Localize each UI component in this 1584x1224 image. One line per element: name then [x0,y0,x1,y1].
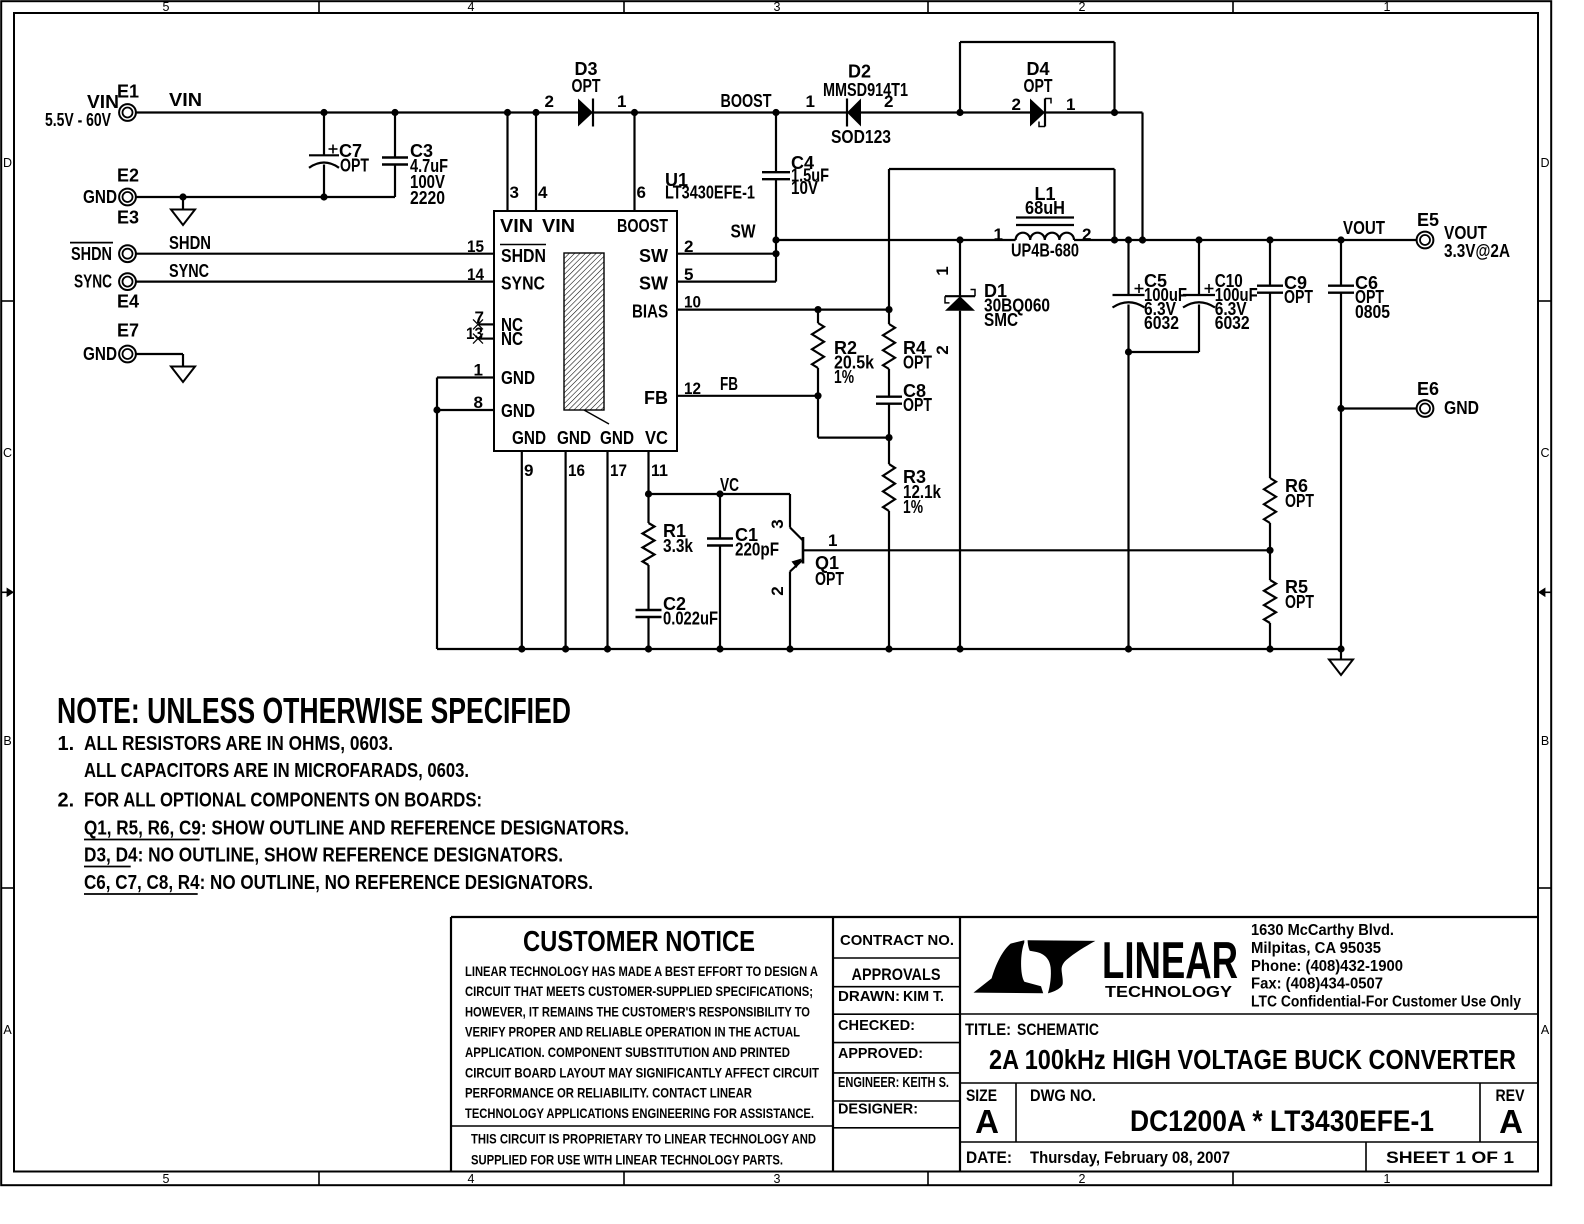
wire D4 cathode to VOUT [1045,109,1143,240]
svg-text:VIN: VIN [500,216,533,236]
svg-text:NC: NC [501,329,523,349]
wire net SW [677,236,1016,281]
svg-text:E1: E1 [117,82,139,102]
svg-text:2A 100kHz HIGH VOLTAGE BUCK CO: 2A 100kHz HIGH VOLTAGE BUCK CONVERTER [989,1044,1516,1075]
terminal E1 VIN [45,82,202,131]
svg-text:OPT: OPT [903,395,932,415]
svg-text:D2: D2 [848,62,871,82]
svg-text:4: 4 [538,183,548,202]
svg-text:DRAWN:: DRAWN: [838,988,900,1005]
svg-text:BOOST: BOOST [617,216,668,236]
ground symbol (main rail) [1329,660,1353,676]
diode D3 [545,59,627,127]
svg-text:1: 1 [828,531,837,550]
svg-text:A: A [975,1103,999,1140]
svg-text:1: 1 [1384,0,1391,14]
svg-text:SHDN: SHDN [71,244,112,264]
svg-text:2: 2 [1082,225,1091,244]
svg-text:Thursday, February 08, 2007: Thursday, February 08, 2007 [1030,1148,1230,1167]
svg-text:1%: 1% [903,497,923,517]
capacitor C6 OPT 0805 [1328,240,1390,649]
svg-text:BIAS: BIAS [632,302,668,322]
svg-text:4: 4 [468,0,475,14]
Linear Technology logo [974,932,1239,1001]
svg-text:6: 6 [637,183,646,202]
svg-text:CUSTOMER NOTICE: CUSTOMER NOTICE [523,926,755,958]
svg-text:3: 3 [774,0,781,14]
diode D2 MMSD914T1 [806,62,908,148]
svg-text:LTC Confidential-For Customer: LTC Confidential-For Customer Use Only [1251,993,1521,1010]
wire BIAS column to VOUT [889,169,1115,310]
svg-text:5: 5 [684,265,693,284]
svg-text:14: 14 [467,265,484,284]
svg-text:17: 17 [610,461,627,480]
address text [1251,922,1521,1010]
svg-text:CONTRACT NO.: CONTRACT NO. [840,932,954,949]
svg-text:SHDN: SHDN [501,246,546,266]
svg-text:LT3430EFE-1: LT3430EFE-1 [665,183,755,203]
capacitor C8 OPT [876,381,932,438]
svg-text:SMC: SMC [984,310,1018,330]
svg-text:2.: 2. [58,790,75,812]
svg-text:VIN: VIN [169,90,202,110]
wire net FB [677,392,822,399]
capacitor C1 220pF [707,494,779,649]
svg-text:GND: GND [600,428,634,448]
capacitor C4 [762,113,829,241]
svg-text:1: 1 [806,92,815,111]
svg-text:9: 9 [524,461,533,480]
svg-text:0805: 0805 [1355,302,1390,322]
svg-text:CHECKED:: CHECKED: [838,1017,915,1034]
wire R2 bottom leg [818,396,893,441]
svg-text:Fax: (408)434-0507: Fax: (408)434-0507 [1251,976,1383,993]
svg-text:GND: GND [83,344,117,364]
svg-text:OPT: OPT [1285,592,1314,612]
svg-text:2: 2 [684,237,693,256]
svg-text:OPT: OPT [815,569,844,589]
svg-text:VOUT: VOUT [1343,218,1385,238]
svg-text:E5: E5 [1417,210,1439,230]
resistor R5 OPT [1264,550,1314,649]
svg-text:Phone: (408)432-1900: Phone: (408)432-1900 [1251,958,1403,975]
svg-text:1.: 1. [58,733,75,755]
U1 NC stub pin 13 [473,334,494,344]
svg-text:10: 10 [684,293,701,312]
terminal E6 GND [1417,379,1479,418]
svg-text:CIRCUIT BOARD LAYOUT MAY SIGNI: CIRCUIT BOARD LAYOUT MAY SIGNIFICANTLY A… [465,1064,819,1080]
svg-text:OPT: OPT [572,76,601,96]
svg-text:TITLE:: TITLE: [965,1020,1011,1039]
svg-text:2: 2 [1079,0,1086,14]
capacitor C9 OPT [1257,240,1313,478]
wire C5/C10 bottom tie [1125,348,1199,355]
svg-text:2220: 2220 [410,188,445,208]
svg-text:SW: SW [731,222,756,242]
svg-text:OPT: OPT [1024,76,1053,96]
capacitor C2 0.022uF [636,594,719,649]
svg-text:1: 1 [617,92,626,111]
svg-text:4: 4 [468,1172,475,1186]
svg-text:6032: 6032 [1215,313,1250,333]
svg-text:FOR ALL OPTIONAL COMPONENTS ON: FOR ALL OPTIONAL COMPONENTS ON BOARDS: [84,790,482,812]
svg-text:GND: GND [501,368,535,388]
svg-text:10V: 10V [791,178,818,198]
svg-text:GND: GND [512,428,546,448]
svg-text:11: 11 [651,461,668,480]
date row [966,1148,1514,1167]
wire net VIN [136,109,578,211]
svg-text:2: 2 [884,92,893,111]
svg-text:DESIGNER:: DESIGNER: [838,1101,918,1118]
svg-text:VC: VC [645,428,668,448]
svg-text:3.3k: 3.3k [663,536,694,556]
size / dwg / rev row [966,1086,1525,1140]
svg-text:SCHEMATIC: SCHEMATIC [1017,1020,1099,1039]
svg-text:ALL CAPACITORS ARE IN MICROFAR: ALL CAPACITORS ARE IN MICROFARADS, 0603. [84,760,469,782]
resistor R6 OPT [1264,476,1314,550]
terminal E7 GND [83,321,139,365]
resistor R1 3.3k [643,494,694,610]
resistor R4 OPT [883,310,932,397]
svg-text:5: 5 [163,1172,170,1186]
svg-text:SYNC: SYNC [74,272,112,292]
ground symbol (E2) [171,210,195,226]
svg-text:2: 2 [1079,1172,1086,1186]
centerline arrow right [1538,588,1551,598]
svg-text:6032: 6032 [1144,313,1179,333]
wire net BIAS [677,306,893,313]
svg-text:8: 8 [474,393,483,412]
svg-text:3: 3 [768,519,787,528]
svg-text:NOTE: UNLESS OTHERWISE SPECIFI: NOTE: UNLESS OTHERWISE SPECIFIED [57,690,571,731]
svg-text:2: 2 [1012,95,1021,114]
svg-text:OPT: OPT [903,353,932,373]
title block grid [451,917,1538,1172]
net label VC [720,475,739,495]
svg-text:DWG NO.: DWG NO. [1030,1086,1096,1105]
svg-text:220pF: 220pF [735,540,779,560]
svg-text:PERFORMANCE OR RELIABILITY. C: PERFORMANCE OR RELIABILITY. CONTACT LINE… [465,1085,752,1101]
svg-text:1630 McCarthy Blvd.: 1630 McCarthy Blvd. [1251,922,1394,939]
inductor L1 68uH [994,184,1092,261]
svg-text:OPT: OPT [1284,287,1313,307]
svg-text:SYNC: SYNC [501,274,545,294]
svg-text:GND: GND [83,187,117,207]
svg-text:E7: E7 [117,321,139,341]
wire E7 to ground [136,354,183,367]
op-amp U1 LT3430EFE-1 body [494,170,755,451]
wire net SYNC [136,281,494,283]
capacitor C3 [382,113,448,209]
svg-text:SUPPLIED FOR USE WITH LINEAR T: SUPPLIED FOR USE WITH LINEAR TECHNOLOGY … [471,1151,783,1167]
svg-text:1: 1 [474,361,483,380]
terminal E4 SYNC [74,261,209,312]
centerline arrow left [1,588,14,598]
svg-text:1: 1 [994,225,1003,244]
svg-text:E3: E3 [117,208,139,228]
svg-text:APPROVED:: APPROVED: [838,1045,923,1062]
svg-text:SYNC: SYNC [169,261,209,281]
net label SW [731,222,756,242]
capacitor C7 [309,113,369,198]
svg-text:SOD123: SOD123 [831,127,891,147]
svg-text:VC: VC [720,475,739,495]
svg-text:0.022uF: 0.022uF [663,609,718,629]
U1 NC stub pin 7 [473,319,494,329]
wire to E6 [1337,405,1416,412]
svg-text:E2: E2 [117,166,139,186]
svg-text:16: 16 [568,461,585,480]
svg-text:C6, C7, C8, R4: NO OUTLINE, NO: C6, C7, C8, R4: NO OUTLINE, NO REFERENCE… [84,872,593,894]
terminal E5 VOUT [1343,210,1510,261]
svg-text:D3, D4: NO OUTLINE, SHOW REFER: D3, D4: NO OUTLINE, SHOW REFERENCE DESIG… [84,845,563,867]
svg-text:FB: FB [644,388,668,408]
svg-text:2: 2 [545,92,554,111]
svg-text:A: A [1499,1103,1523,1140]
svg-text:GND: GND [1444,398,1479,418]
svg-text:FB: FB [720,374,738,394]
svg-text:SW: SW [639,274,668,294]
svg-text:BOOST: BOOST [721,91,772,111]
resistor R3 12.1k [883,438,942,649]
svg-text:12: 12 [684,379,701,398]
svg-text:LINEAR TECHNOLOGY HAS MADE A B: LINEAR TECHNOLOGY HAS MADE A BEST EFFORT… [465,963,818,979]
customer notice text [465,926,819,1167]
svg-text:C: C [3,446,12,460]
notes text [57,690,629,894]
net label FB [720,374,738,394]
svg-text:2: 2 [933,345,952,354]
svg-text:HOWEVER, IT REMAINS THE CUSTOM: HOWEVER, IT REMAINS THE CUSTOMER'S RESPO… [465,1003,810,1019]
svg-text:5.5V - 60V: 5.5V - 60V [45,110,111,130]
svg-text:TECHNOLOGY APPLICATIONS ENGINE: TECHNOLOGY APPLICATIONS ENGINEERING FOR … [465,1105,814,1121]
resistor R2 20.5k [812,310,875,396]
svg-text:GND: GND [557,428,591,448]
svg-text:3: 3 [774,1172,781,1186]
svg-text:SHEET 1 OF 1: SHEET 1 OF 1 [1386,1148,1514,1167]
svg-text:A: A [1541,1023,1550,1037]
capacitor C5 100uF [1113,240,1188,649]
svg-text:1: 1 [1384,1172,1391,1186]
svg-text:3: 3 [510,183,519,202]
terminal E3 SHDN [70,208,211,265]
wire D2 anode to D4 anode [861,42,1115,116]
svg-text:1%: 1% [834,367,854,387]
svg-text:DATE:: DATE: [966,1148,1012,1167]
svg-text:APPLICATION. COMPONENT SUBSTI: APPLICATION. COMPONENT SUBSTITUTION AND … [465,1044,790,1060]
svg-text:DC1200A * LT3430EFE-1: DC1200A * LT3430EFE-1 [1130,1105,1434,1138]
U1 pin numbers [466,183,701,480]
svg-text:1: 1 [933,266,952,275]
svg-text:VIN: VIN [87,92,119,112]
approvals column text [838,932,954,1118]
svg-text:ENGINEER: KEITH S.: ENGINEER: KEITH S. [838,1074,949,1091]
svg-text:68uH: 68uH [1025,198,1065,218]
svg-text:Q1, R5, R6, C9: SHOW OUTLINE A: Q1, R5, R6, C9: SHOW OUTLINE AND REFEREN… [84,818,629,840]
svg-text:VIN: VIN [542,216,575,236]
svg-text:KIM T.: KIM T. [903,988,944,1005]
svg-text:D: D [3,156,12,170]
wire ground rail [433,378,1344,660]
wire Q1 base line [803,547,1274,554]
svg-text:A: A [3,1023,12,1037]
svg-text:TECHNOLOGY: TECHNOLOGY [1105,984,1233,1001]
title text [965,1020,1516,1075]
svg-text:1: 1 [1066,95,1075,114]
svg-text:SW: SW [639,246,668,266]
capacitor C10 100uF [1183,240,1258,352]
svg-text:E6: E6 [1417,379,1439,399]
svg-text:SHDN: SHDN [169,233,211,253]
svg-text:ALL RESISTORS ARE IN OHMS, 060: ALL RESISTORS ARE IN OHMS, 0603. [84,733,393,755]
svg-text:2: 2 [768,586,787,595]
diode D1 30BQ060 [933,240,1050,649]
svg-text:C: C [1540,446,1549,460]
svg-text:APPROVALS: APPROVALS [852,965,941,984]
terminal E2 GND [83,166,139,208]
svg-text:D: D [1540,156,1549,170]
wire net BOOST [593,109,847,211]
wire net VC [645,451,790,498]
svg-text:VOUT: VOUT [1444,223,1487,243]
svg-text:CIRCUIT THAT MEETS CUSTOMER-SU: CIRCUIT THAT MEETS CUSTOMER-SUPPLIED SPE… [465,983,813,999]
transistor Q1 (PNP) [768,494,844,649]
svg-text:Milpitas, CA 95035: Milpitas, CA 95035 [1251,940,1381,957]
svg-text:LINEAR: LINEAR [1102,932,1238,990]
svg-text:GND: GND [501,401,535,421]
svg-text:MMSD914T1: MMSD914T1 [823,80,908,100]
wire net SHDN [136,253,494,255]
svg-text:B: B [1541,734,1549,748]
svg-text:THIS CIRCUIT IS PROPRIETARY TO: THIS CIRCUIT IS PROPRIETARY TO LINEAR TE… [471,1131,816,1147]
wire net GND (E2) [136,193,395,209]
svg-text:B: B [3,734,11,748]
svg-text:OPT: OPT [1285,491,1314,511]
wire net VOUT [1074,236,1417,243]
svg-text:E4: E4 [117,292,139,312]
svg-text:OPT: OPT [340,156,369,176]
svg-text:3.3V@2A: 3.3V@2A [1444,241,1510,261]
net label BOOST [721,91,772,111]
svg-text:UP4B-680: UP4B-680 [1011,241,1079,261]
svg-text:5: 5 [163,0,170,14]
svg-text:15: 15 [467,237,484,256]
diode D4 [1012,59,1076,127]
svg-text:VERIFY PROPER AND RELIABLE OPE: VERIFY PROPER AND RELIABLE OPERATION IN … [465,1024,800,1040]
ground symbol (E7) [171,367,195,383]
